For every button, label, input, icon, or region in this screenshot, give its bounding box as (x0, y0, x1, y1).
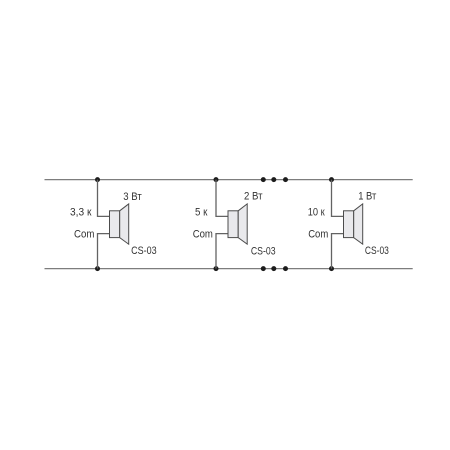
node: junction J2 bottom of speaker 1 (95, 266, 100, 271)
speaker LS3 cone (354, 204, 363, 244)
wire: speaker 1 common return (98, 234, 110, 269)
node: junction J3 top of speaker 2 (214, 177, 219, 182)
speaker LS2 CS-03 body (228, 211, 238, 238)
svg-text:CS-03: CS-03 (251, 245, 276, 257)
wire: bottom bus line (45, 268, 413, 270)
svg-text:3 Вт: 3 Вт (123, 191, 141, 203)
wire: speaker 2 common return (216, 234, 228, 269)
node: continuation dot bottom c (283, 266, 288, 271)
svg-text:10 к: 10 к (308, 207, 325, 219)
svg-text:Com: Com (74, 228, 94, 240)
node: junction J1 top of speaker 1 (95, 177, 100, 182)
svg-text:1 Вт: 1 Вт (358, 191, 376, 203)
node: continuation dot top c (283, 177, 288, 182)
wire: speaker 3 common return (332, 234, 344, 269)
speaker LS3 CS-03 body (344, 211, 354, 238)
svg-text:Com: Com (193, 228, 213, 240)
node: junction J4 bottom of speaker 2 (214, 266, 219, 271)
wire: speaker 2 top tap drop (216, 180, 228, 217)
svg-text:CS-03: CS-03 (131, 245, 157, 257)
wire: speaker 3 top tap drop (332, 180, 344, 217)
wire: top bus line (45, 179, 413, 181)
node: junction J5 top of speaker 3 (329, 177, 334, 182)
speaker LS2 cone (238, 204, 247, 244)
node: continuation dot bottom b (271, 266, 276, 271)
speaker LS1 CS-03 body (110, 211, 120, 238)
speaker LS1 cone (120, 204, 129, 244)
svg-text:5 к: 5 к (195, 207, 208, 219)
node: continuation dot bottom a (261, 266, 266, 271)
svg-text:3,3 к: 3,3 к (70, 207, 92, 219)
svg-text:CS-03: CS-03 (365, 245, 389, 257)
node: continuation dot top b (271, 177, 276, 182)
node: continuation dot top a (261, 177, 266, 182)
node: junction J6 bottom of speaker 3 (329, 266, 334, 271)
wire: speaker 1 top tap drop (98, 180, 110, 217)
svg-text:Com: Com (308, 228, 328, 240)
svg-text:2 Вт: 2 Вт (244, 191, 263, 203)
